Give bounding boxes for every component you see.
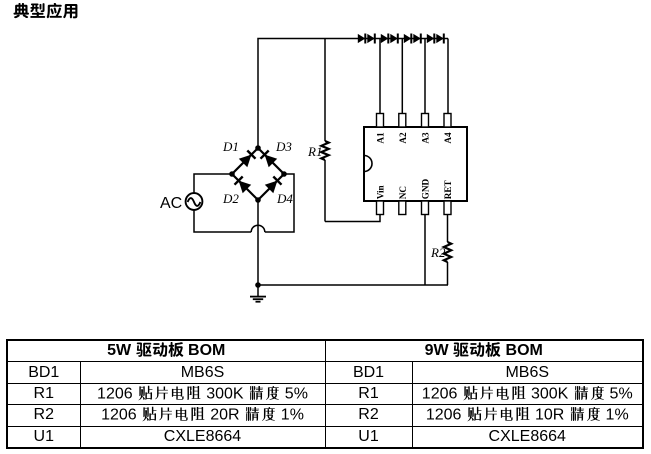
svg-text:NC: NC <box>398 186 408 199</box>
IC U1 CXLE8664 body <box>364 127 467 201</box>
LED 4 of series string <box>390 34 398 43</box>
wire: pin GND down to ground rail <box>424 215 426 286</box>
svg-text:R1: R1 <box>307 144 322 159</box>
svg-text:A2: A2 <box>398 132 408 144</box>
wire: AC source bottom to bridge right node (with hop over DC- wire) <box>194 210 251 232</box>
node: bridge top (DC+) <box>255 145 261 151</box>
IC U1 pin-1 notch <box>364 156 372 172</box>
IC pin Vin (bottom) <box>377 201 384 215</box>
diode D1 (bridge, lower-left to top) <box>239 155 252 168</box>
svg-text:D2: D2 <box>222 191 239 206</box>
LED 1 of series string <box>358 34 366 43</box>
IC pin A2 (top) <box>399 114 406 128</box>
diode D4 (bridge, bottom to right) <box>265 181 278 194</box>
IC pin NC (bottom) <box>399 201 406 215</box>
svg-text:A3: A3 <box>421 132 431 144</box>
IC pin A4 (top) <box>444 114 451 128</box>
bridge rectifier BD1: diamond wiring <box>232 148 284 200</box>
ground symbol <box>257 285 259 297</box>
wire: LED string tap down to pin A3 <box>424 39 426 115</box>
IC pin A3 (top) <box>422 114 429 128</box>
svg-text:D3: D3 <box>275 139 292 154</box>
LED 8 of series string <box>436 34 444 43</box>
wire: LED string tap down to pin A1 <box>379 39 381 115</box>
svg-text:R2: R2 <box>430 245 446 260</box>
wire: bridge bottom node down to ground rail <box>257 200 259 285</box>
svg-text:AC: AC <box>160 195 182 212</box>
node: ground junction <box>255 282 261 288</box>
svg-text:D1: D1 <box>222 139 239 154</box>
wire: bridge left node to AC source top <box>194 174 232 193</box>
wire: LED string tap down to pin A2 <box>401 39 403 115</box>
IC pin A1 (top) <box>377 114 384 128</box>
wire: DC+ rail from bridge top node up and across to LED string <box>258 39 448 149</box>
diode D2 (bridge, bottom to left) <box>239 181 252 194</box>
node: bridge right (AC in) <box>281 171 287 177</box>
wire: ground rail to GND pin and R2 <box>258 284 448 286</box>
svg-text:RET: RET <box>443 180 453 199</box>
svg-text:D4: D4 <box>276 191 293 206</box>
svg-text:Vin: Vin <box>376 185 386 199</box>
resistor R1 <box>324 39 326 142</box>
svg-text:A4: A4 <box>443 132 453 144</box>
LED 3 of series string <box>381 34 389 43</box>
diode D3 (bridge, right to top) <box>265 155 278 168</box>
LED 6 of series string <box>413 34 421 43</box>
svg-text:GND: GND <box>421 179 431 200</box>
BOM table <box>6 339 644 449</box>
LED 7 of series string <box>427 34 435 43</box>
title 典型应用 <box>13 3 79 25</box>
LED 2 of series string <box>367 34 375 43</box>
node: bridge bottom (DC-) <box>255 197 261 203</box>
AC source V1 <box>186 193 203 210</box>
node: bridge left (AC in) <box>229 171 235 177</box>
svg-text:A1: A1 <box>376 132 386 144</box>
LED 5 of series string <box>404 34 412 43</box>
wire: R1 bottom to pin Vin <box>325 213 380 222</box>
resistor R2 <box>447 215 449 243</box>
IC pin GND (bottom) <box>422 201 429 215</box>
wire: LED string end down to pin A4 <box>447 39 449 115</box>
IC pin RET (bottom) <box>444 201 451 215</box>
